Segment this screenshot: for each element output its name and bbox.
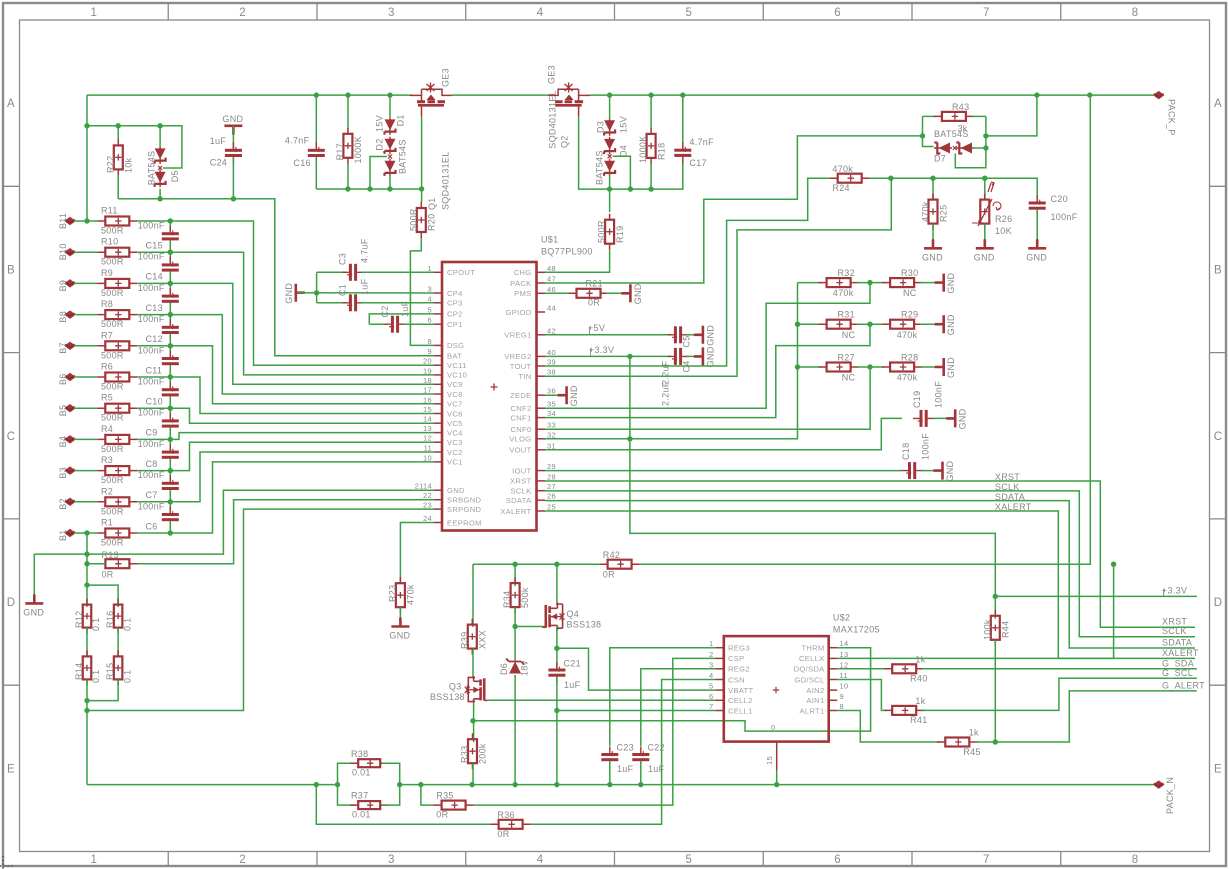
- svg-text:R22: R22: [106, 156, 116, 173]
- resistor R35 0R: [421, 785, 435, 806]
- node PACK_P rail junctions: [314, 92, 319, 97]
- svg-text:PACK_P: PACK_P: [1167, 99, 1177, 136]
- wire R5 to cap chain: [137, 407, 170, 409]
- svg-text:R29: R29: [901, 310, 918, 320]
- wire +3.3V distribution to R44 and right edge: [630, 356, 995, 596]
- pin B7: [65, 342, 75, 349]
- U$1 pin 2114 GND: [434, 489, 442, 491]
- svg-text:C11: C11: [146, 365, 163, 375]
- U$2 pin 3 REG2: [715, 668, 724, 670]
- wire PACK_P top rail: [87, 94, 412, 96]
- resistor R30 NC: [857, 282, 885, 284]
- svg-text:18: 18: [423, 376, 432, 385]
- svg-text:C8: C8: [146, 459, 158, 469]
- wire R4 to cap chain: [137, 438, 170, 440]
- wire C2 to U$1 pin 6: [404, 323, 435, 325]
- svg-text:VC7: VC7: [447, 400, 463, 409]
- U$1 pin 34 CNF1: [537, 417, 546, 419]
- svg-text:U$2: U$2: [833, 613, 850, 623]
- svg-text:B11: B11: [58, 213, 68, 229]
- svg-text:3: 3: [388, 7, 395, 19]
- svg-text:100nF: 100nF: [138, 408, 165, 418]
- U$1 pin 31 VOUT: [537, 449, 546, 451]
- ground GND above C24: [224, 126, 242, 135]
- svg-text:R8: R8: [101, 299, 113, 309]
- resistor R43 3k: [923, 115, 936, 117]
- svg-text:R33: R33: [460, 746, 470, 763]
- U$1 pin 12 VC3: [434, 441, 442, 443]
- svg-text:6: 6: [428, 316, 432, 325]
- pin B4: [65, 436, 75, 443]
- svg-text:1k: 1k: [915, 696, 925, 706]
- svg-text:C12: C12: [146, 334, 163, 344]
- wire R43 left loop: [923, 116, 934, 146]
- ground GND below R23: [391, 618, 409, 627]
- resistor R45 1k: [945, 738, 969, 747]
- svg-text:B5: B5: [58, 405, 68, 417]
- svg-text:THRM: THRM: [801, 644, 824, 653]
- svg-text:100nF: 100nF: [138, 501, 165, 511]
- svg-text:13: 13: [840, 650, 849, 659]
- svg-text:100nF: 100nF: [138, 252, 165, 262]
- U$1 pin 16 VC7: [434, 403, 442, 405]
- wire R42 to PACK_P rail: [640, 95, 1091, 564]
- svg-text:1: 1: [709, 639, 713, 648]
- svg-text:1uF: 1uF: [400, 300, 410, 317]
- resistor R40 1k: [837, 668, 886, 670]
- wire VLOG to NC rail: [545, 283, 798, 439]
- svg-text:SCLK: SCLK: [1162, 626, 1187, 636]
- svg-text:D5: D5: [170, 170, 180, 182]
- diode D5 BAT54S dual: [159, 126, 161, 147]
- svg-text:200k: 200k: [478, 743, 488, 764]
- svg-text:CP1: CP1: [447, 320, 463, 329]
- ground GND at R29: [920, 323, 941, 325]
- svg-text:GND: GND: [946, 314, 956, 335]
- svg-text:B4: B4: [58, 436, 68, 448]
- svg-text:D6: D6: [499, 663, 509, 675]
- svg-text:B8: B8: [58, 311, 68, 323]
- svg-text:SQD40131EL: SQD40131EL: [441, 151, 451, 210]
- U$1 pin 1 CPOUT: [434, 271, 442, 273]
- wire Q3 source to R33: [473, 703, 475, 742]
- svg-text:R2: R2: [101, 486, 113, 496]
- svg-text:R19: R19: [615, 226, 625, 243]
- svg-text:R10: R10: [101, 237, 118, 247]
- svg-text:23: 23: [423, 501, 432, 510]
- U$2 pin 2 CSP: [715, 657, 724, 659]
- resistor R23 470k: [396, 583, 405, 607]
- svg-text:REG3: REG3: [728, 644, 750, 653]
- svg-text:22: 22: [423, 491, 432, 500]
- svg-text:XALERT: XALERT: [995, 502, 1032, 512]
- svg-text:0.01: 0.01: [352, 810, 371, 820]
- capacitor C4 2.2uF: [674, 348, 677, 365]
- svg-text:G_ALERT: G_ALERT: [1162, 680, 1205, 690]
- svg-text:39: 39: [547, 358, 556, 367]
- wire U$2 pin 15 to ground rail: [776, 771, 778, 785]
- svg-text:36: 36: [547, 387, 556, 396]
- svg-text:R13: R13: [102, 550, 119, 560]
- pin B11: [65, 217, 75, 224]
- U$1 pin 44 GPIOD: [537, 311, 546, 313]
- svg-text:10: 10: [423, 453, 432, 462]
- svg-text:5: 5: [686, 7, 693, 19]
- ground GND below C20: [1028, 239, 1046, 248]
- svg-text:C19: C19: [912, 391, 922, 408]
- svg-text:44: 44: [547, 304, 556, 313]
- capacitor C24 1uF: [232, 126, 234, 149]
- svg-text:100nF: 100nF: [1051, 212, 1078, 222]
- svg-text:DSG: DSG: [447, 341, 464, 350]
- resistor R29 470k: [857, 323, 885, 325]
- svg-text:SDATA: SDATA: [506, 496, 532, 505]
- svg-text:8: 8: [840, 702, 844, 711]
- wire Q3/R33 node to U$2 THRM pin 14: [473, 648, 871, 731]
- resistor R42 0R: [608, 560, 632, 569]
- svg-text:C22: C22: [648, 743, 665, 753]
- wire CNF1 to R31 net: [545, 324, 870, 417]
- wire R24 output rail to C20: [870, 178, 1037, 201]
- svg-text:SRBGND: SRBGND: [447, 496, 482, 505]
- svg-text:1uF: 1uF: [648, 764, 665, 774]
- svg-text:500k: 500k: [520, 587, 530, 608]
- svg-text:CNF0: CNF0: [510, 425, 531, 434]
- svg-text:13: 13: [423, 424, 432, 433]
- resistor R24 470k: [838, 174, 862, 183]
- svg-text:VC10: VC10: [447, 371, 467, 380]
- svg-text:R5: R5: [101, 393, 113, 403]
- svg-text:GND: GND: [389, 631, 410, 641]
- svg-text:IOUT: IOUT: [512, 466, 531, 475]
- svg-text:1: 1: [428, 264, 432, 273]
- wire R22/D5 top rail: [87, 126, 182, 168]
- svg-text:17: 17: [423, 386, 432, 395]
- svg-text:BAT54S: BAT54S: [594, 150, 604, 185]
- U$1 pin 47 PACK: [537, 282, 546, 284]
- svg-text:500R: 500R: [101, 257, 124, 267]
- svg-text:4: 4: [537, 854, 544, 866]
- wire Q4 source to U$2 pin 5 VBATT: [557, 648, 715, 690]
- resistor R6 500R: [74, 376, 97, 378]
- resistor R9 500R: [74, 282, 97, 284]
- svg-text:31: 31: [547, 441, 556, 450]
- wire VOUT to C19: [545, 418, 902, 449]
- svg-text:VOUT: VOUT: [509, 446, 531, 455]
- svg-text:VC6: VC6: [447, 409, 463, 418]
- svg-text:XRST: XRST: [1162, 617, 1187, 627]
- svg-text:10: 10: [840, 682, 849, 691]
- svg-text:C9: C9: [146, 428, 158, 438]
- svg-text:100nF: 100nF: [138, 345, 165, 355]
- svg-text:470k: 470k: [897, 330, 918, 340]
- svg-text:D7: D7: [934, 154, 946, 164]
- ground GND at C4: [687, 355, 701, 357]
- U$2 pin 10 AIN2: [829, 689, 838, 691]
- wire SDATA net: [545, 501, 1195, 648]
- svg-text:VC8: VC8: [447, 390, 463, 399]
- svg-text:32: 32: [547, 430, 556, 439]
- wire U$1 GND pin 2114 to ground rail: [34, 490, 434, 554]
- wire XRST net: [545, 481, 1195, 627]
- svg-text:500R: 500R: [597, 220, 607, 243]
- capacitor C20 100nF: [1029, 202, 1046, 205]
- svg-text:R16: R16: [105, 611, 115, 628]
- wire left drop from rail to B11: [86, 95, 88, 221]
- wire TIN to R24 right: [545, 178, 891, 376]
- svg-text:R42: R42: [603, 550, 620, 560]
- svg-text:+3.3V: +3.3V: [589, 345, 614, 355]
- svg-text:VC5: VC5: [447, 419, 463, 428]
- svg-text:R1: R1: [101, 518, 113, 528]
- U$2 pin 5 VBATT: [715, 689, 724, 691]
- resistor R3 500R: [74, 470, 97, 472]
- svg-text:GND: GND: [569, 385, 579, 406]
- wire D7 right and center loop: [972, 147, 986, 149]
- resistor R39 XXX: [472, 564, 474, 627]
- U$1 pin 17 VC8: [434, 393, 442, 395]
- svg-text:7: 7: [983, 7, 990, 19]
- resistor R1 500R: [74, 532, 97, 534]
- svg-text:C23: C23: [617, 743, 634, 753]
- resistor R20 500R: [417, 208, 426, 232]
- svg-text:CHG: CHG: [514, 268, 532, 277]
- capacitor C19 100nF: [920, 410, 923, 427]
- svg-text:46: 46: [547, 285, 556, 294]
- svg-text:100nF: 100nF: [138, 470, 165, 480]
- svg-text:6: 6: [709, 692, 713, 701]
- U$1 pin 9 BAT: [434, 355, 442, 357]
- U$1 pin 36 ZEDE: [537, 394, 546, 396]
- resistor R17 1000K: [347, 95, 349, 129]
- svg-text:CELL1: CELL1: [728, 706, 753, 715]
- svg-text:470k: 470k: [833, 288, 854, 298]
- capacitor C17 4.7nF: [682, 95, 684, 149]
- svg-text:G_SDA: G_SDA: [1162, 658, 1194, 668]
- wire B5 staircase to U$1: [170, 408, 434, 423]
- wire U$2 pin 1 to C23: [610, 648, 716, 746]
- resistor R5 500R: [74, 407, 97, 409]
- svg-text:500R: 500R: [101, 288, 124, 298]
- op-amp U$1 BQ77PL900 body: [442, 262, 537, 531]
- wire B9 staircase to U$1: [170, 283, 434, 384]
- svg-text:+5V: +5V: [588, 323, 605, 333]
- wire R41 to G_SCL: [922, 678, 1197, 710]
- wire B7 staircase to U$1: [170, 346, 434, 404]
- wire EEPROM pin 24 to R23: [400, 523, 434, 581]
- wire R20 to U$1 pin 8 DSG: [410, 238, 434, 345]
- svg-text:AIN2: AIN2: [806, 686, 824, 695]
- svg-text:D4: D4: [618, 145, 628, 157]
- wire shunt bottoms join: [86, 679, 88, 784]
- transistor Q1 SQD40131EL: [410, 83, 452, 117]
- svg-text:C20: C20: [1051, 194, 1068, 204]
- svg-text:500R: 500R: [101, 319, 124, 329]
- ground GND below R26: [976, 239, 994, 248]
- svg-text:15: 15: [423, 405, 432, 414]
- svg-text:C1: C1: [338, 284, 348, 296]
- capacitor C5 2.2uF: [674, 326, 677, 343]
- svg-text:R4: R4: [101, 424, 113, 434]
- transistor Q3 BSS138 (mirrored): [465, 676, 488, 703]
- svg-text:470k: 470k: [832, 164, 853, 174]
- svg-text:GND: GND: [1026, 252, 1047, 262]
- svg-text:R7: R7: [101, 330, 113, 340]
- ground GND at ZEDE pin 36: [545, 394, 564, 396]
- svg-text:26: 26: [547, 492, 556, 501]
- svg-text:11: 11: [424, 444, 432, 453]
- diode D1 15V zener: [389, 95, 391, 117]
- svg-text:500R: 500R: [408, 208, 418, 231]
- svg-text:14: 14: [423, 415, 432, 424]
- resistor R11 500R: [74, 220, 97, 222]
- pin B1: [65, 529, 75, 536]
- ground GND left of C1/C3 cluster: [296, 284, 305, 302]
- wire C3 to U$1 pin 1 CPOUT: [362, 271, 435, 273]
- svg-text:1k: 1k: [969, 728, 979, 738]
- svg-text:GND: GND: [946, 357, 956, 378]
- svg-text:500R: 500R: [101, 413, 124, 423]
- svg-text:27: 27: [547, 482, 556, 491]
- U$1 pin 11 VC2: [434, 451, 442, 453]
- wire BAT bottom rail to U$1 pin 9: [118, 199, 434, 356]
- svg-text:B: B: [7, 264, 15, 276]
- wire R43/D7 to PACK_P rail: [986, 95, 1037, 136]
- svg-text:BAT54S: BAT54S: [146, 151, 156, 186]
- resistor R28 470k: [857, 366, 885, 368]
- svg-text:E: E: [7, 763, 15, 775]
- svg-text:CNF1: CNF1: [510, 413, 531, 422]
- svg-text:R9: R9: [101, 268, 113, 278]
- svg-text:C6: C6: [146, 521, 158, 531]
- svg-text:5: 5: [686, 854, 693, 866]
- svg-text:500R: 500R: [101, 475, 124, 485]
- wire R35 to U$2 pin 2 CSP: [474, 658, 716, 805]
- svg-text:1000K: 1000K: [638, 135, 648, 163]
- U$1 pin 13 VC4: [434, 432, 442, 434]
- resistor R14 0.1: [83, 656, 92, 679]
- svg-text:R20: R20: [427, 214, 437, 231]
- svg-text:BAT54S: BAT54S: [398, 139, 408, 174]
- resistor R25 470k: [932, 178, 934, 200]
- svg-text:VREG2: VREG2: [504, 352, 531, 361]
- svg-text:B1: B1: [58, 529, 68, 541]
- svg-text:NC: NC: [903, 288, 917, 298]
- svg-text:2114: 2114: [415, 482, 432, 491]
- U$1 pin 46 PMS: [537, 292, 546, 294]
- capacitor C22 1uF: [632, 753, 649, 756]
- capacitor C21 1uF: [556, 648, 558, 668]
- U$1 pin 23 SRPGND: [434, 508, 442, 510]
- svg-text:35: 35: [547, 400, 556, 409]
- svg-text:1: 1: [91, 854, 98, 866]
- resistor R31 NC: [798, 323, 821, 325]
- svg-text:VBATT: VBATT: [728, 686, 753, 695]
- svg-text:B6: B6: [58, 373, 68, 385]
- svg-text:D: D: [1214, 597, 1223, 609]
- U$1 pin 10 VC1: [434, 461, 442, 463]
- svg-text:R41: R41: [910, 715, 927, 725]
- U$1 pin 20 VC11: [434, 364, 442, 366]
- svg-text:34: 34: [547, 409, 556, 418]
- wire B3 staircase to U$1: [170, 442, 434, 470]
- resistor R18 1000K: [650, 95, 652, 128]
- svg-text:R11: R11: [101, 206, 118, 216]
- svg-text:CP2: CP2: [447, 310, 463, 319]
- svg-text:GD/SCL: GD/SCL: [794, 675, 824, 684]
- svg-text:XXX: XXX: [478, 630, 488, 649]
- diode D4 BAT54S: [604, 139, 615, 150]
- U$1 pin 22 SRBGND: [434, 499, 442, 501]
- svg-text:25: 25: [547, 503, 556, 512]
- svg-text:GND: GND: [222, 114, 243, 124]
- svg-text:500R: 500R: [101, 506, 124, 516]
- wire XALERT net: [545, 511, 1195, 658]
- pin B5: [65, 405, 75, 412]
- svg-text:BSS138: BSS138: [567, 620, 602, 630]
- U$1 pin 33 CNF0: [537, 428, 546, 430]
- svg-text:4.7nF: 4.7nF: [285, 135, 310, 145]
- svg-text:5: 5: [709, 682, 713, 691]
- svg-text:100nF: 100nF: [138, 221, 165, 231]
- svg-text:0.01: 0.01: [352, 768, 371, 778]
- svg-text:15: 15: [765, 756, 774, 765]
- wire U$1 pin 47 PACK to R43/D7: [545, 136, 923, 283]
- U$2 pin 1 REG3: [715, 647, 724, 649]
- svg-text:XALERT: XALERT: [1162, 648, 1199, 658]
- svg-text:GND: GND: [922, 252, 943, 262]
- svg-text:R38: R38: [351, 749, 368, 759]
- svg-text:47: 47: [547, 275, 556, 284]
- wire B8 staircase to U$1: [170, 315, 434, 394]
- svg-text:R36: R36: [497, 810, 514, 820]
- svg-text:100nF: 100nF: [138, 283, 165, 293]
- resistor R41 1k: [837, 680, 886, 711]
- svg-text:SDATA: SDATA: [995, 492, 1025, 502]
- wire R7 to cap chain: [137, 345, 170, 347]
- svg-text:C: C: [1214, 431, 1223, 443]
- resistor R15 0.1: [114, 656, 123, 679]
- wire ground rail to PACK_N: [400, 784, 1154, 786]
- svg-text:500R: 500R: [101, 382, 124, 392]
- svg-text:R34: R34: [502, 591, 512, 608]
- wire Q3 gate to U$2 pin 6 CELL2: [488, 699, 716, 701]
- svg-text:4.7nF: 4.7nF: [689, 137, 714, 147]
- svg-text:+3.3V: +3.3V: [1162, 586, 1187, 596]
- U$1 pin 14 VC5: [434, 422, 442, 424]
- svg-text:C18: C18: [901, 443, 911, 460]
- svg-text:R39: R39: [459, 632, 469, 649]
- svg-text:VC3: VC3: [447, 438, 463, 447]
- svg-text:XRST: XRST: [510, 477, 532, 486]
- transistor Q4 BSS138: [542, 602, 564, 630]
- U$1 pin 19 VC10: [434, 374, 442, 376]
- svg-text:C: C: [7, 431, 16, 443]
- U$1 pin 29 IOUT: [537, 470, 546, 472]
- svg-text:4: 4: [709, 671, 713, 680]
- wire R12-R14 link: [86, 628, 88, 657]
- svg-text:NC: NC: [842, 330, 856, 340]
- svg-text:XRST: XRST: [995, 472, 1020, 482]
- wire IOUT to C18: [545, 470, 902, 472]
- svg-text:29: 29: [547, 462, 556, 471]
- svg-text:18v: 18v: [519, 660, 529, 676]
- svg-text:B3: B3: [58, 467, 68, 479]
- svg-text:40: 40: [547, 348, 556, 357]
- ground GND lower left: [33, 554, 35, 603]
- pin PACK_P: [1154, 92, 1164, 99]
- svg-text:3: 3: [388, 854, 395, 866]
